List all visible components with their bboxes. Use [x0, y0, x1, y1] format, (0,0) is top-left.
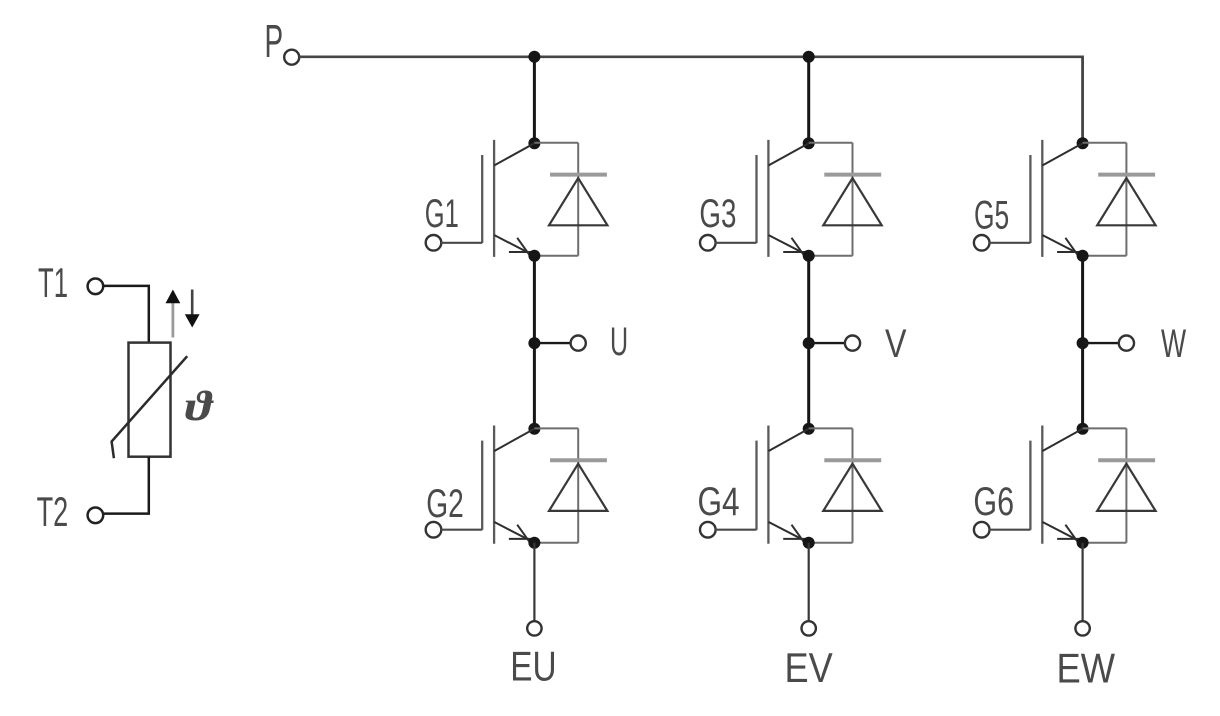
- wire: G4 lead to gate: [715, 529, 756, 531]
- node: Q5 emitter junction: [1077, 250, 1089, 262]
- wire: Q collector to D2 cathode: [534, 427, 578, 429]
- svg-text:ϑ: ϑ: [185, 384, 214, 430]
- diode D5: [1097, 143, 1155, 256]
- wire: G1 lead to gate: [441, 242, 482, 244]
- diode D3: [823, 143, 881, 256]
- wire: Q collector to D1 cathode: [534, 142, 578, 144]
- gate terminal G5: [974, 235, 990, 251]
- wire: P rail down to Q1 collector: [533, 57, 536, 143]
- wire: D3 anode to Q emitter: [809, 255, 853, 257]
- terminal U: [571, 336, 586, 351]
- wire: Q collector to D3 cathode: [809, 142, 853, 144]
- wire: Q4 emitter to terminal EV: [808, 543, 810, 622]
- svg-text:G1: G1: [425, 192, 459, 236]
- wire: Q collector to D6 cathode: [1083, 427, 1127, 429]
- gate terminal G1: [426, 235, 442, 251]
- svg-text:EW: EW: [1057, 645, 1116, 692]
- thermistor diagonal stroke: [112, 356, 188, 458]
- wire: Q3 emitter to node V: [807, 256, 810, 343]
- terminal T1: [88, 279, 104, 295]
- IGBT Q1: [482, 140, 534, 257]
- wire: D1 anode to Q emitter: [534, 255, 578, 257]
- wire: D6 anode to Q emitter: [1083, 542, 1127, 544]
- IGBT Q3: [757, 140, 809, 257]
- terminal P: [284, 50, 299, 65]
- svg-text:G5: G5: [974, 194, 1009, 238]
- wire: P rail from terminal P to W leg, corner down to Q5 collector: [299, 57, 1083, 143]
- terminal EW: [1075, 621, 1089, 635]
- svg-text:EV: EV: [785, 644, 833, 691]
- wire: G5 lead to gate: [989, 242, 1030, 244]
- junction: P rail / U leg: [528, 51, 540, 63]
- node: Q2 collector junction: [528, 423, 540, 435]
- terminal V: [845, 336, 860, 351]
- node U junction: [528, 337, 540, 349]
- wire: Q collector to D5 cathode: [1083, 142, 1127, 144]
- svg-text:G6: G6: [973, 480, 1014, 524]
- wire: Q2 emitter to terminal EU: [533, 543, 535, 622]
- wire: Q collector to D4 cathode: [809, 427, 853, 429]
- gate terminal G2: [426, 522, 442, 538]
- svg-text:EU: EU: [510, 643, 556, 690]
- wire: G3 lead to gate: [715, 242, 756, 244]
- IGBT Q2: [482, 426, 534, 544]
- terminal EU: [527, 621, 541, 635]
- terminal EV: [802, 621, 816, 635]
- wire: Q5 emitter to node W: [1081, 256, 1084, 343]
- terminal W: [1119, 336, 1134, 351]
- node W junction: [1077, 337, 1089, 349]
- gate terminal G4: [700, 522, 716, 538]
- terminal T2: [88, 508, 104, 524]
- diode D4: [823, 428, 881, 542]
- svg-text:G3: G3: [699, 192, 736, 236]
- svg-text:T2: T2: [37, 488, 69, 535]
- wire: node U to Q2 collector: [533, 343, 536, 429]
- current direction arrow up: [166, 290, 181, 338]
- IGBT Q5: [1030, 140, 1082, 257]
- junction: P rail / V leg: [803, 51, 815, 63]
- wire: Q6 emitter to terminal EW: [1081, 543, 1083, 622]
- wire: T1 to thermistor body: [103, 286, 149, 343]
- wire: D5 anode to Q emitter: [1083, 255, 1127, 257]
- svg-text:G4: G4: [698, 480, 740, 524]
- wire: node V to Q4 collector: [807, 343, 810, 429]
- node: Q1 collector junction: [528, 137, 540, 149]
- gate terminal G3: [700, 235, 716, 251]
- wire: G2 lead to gate: [441, 529, 482, 531]
- diode D2: [549, 428, 607, 542]
- wire: thermistor body to T2: [103, 457, 149, 514]
- node: Q2 emitter junction: [528, 537, 540, 549]
- node: Q6 collector junction: [1077, 423, 1089, 435]
- wire: Q1 emitter to node U: [533, 256, 536, 343]
- node: Q4 collector junction: [803, 423, 815, 435]
- diode D1: [549, 143, 607, 256]
- current direction arrow down: [185, 290, 200, 328]
- gate terminal G6: [974, 522, 990, 538]
- svg-text:V: V: [885, 322, 907, 366]
- node: Q5 collector junction: [1077, 137, 1089, 149]
- wire: node W to Q6 collector: [1081, 343, 1084, 429]
- wire: node U to terminal U: [534, 342, 571, 344]
- wire: G6 lead to gate: [989, 529, 1030, 531]
- wire: node W to terminal W: [1083, 342, 1120, 344]
- node: Q1 emitter junction: [528, 250, 540, 262]
- IGBT Q4: [757, 426, 809, 544]
- svg-text:U: U: [610, 320, 628, 364]
- svg-text:W: W: [1161, 322, 1186, 366]
- IGBT Q6: [1030, 426, 1082, 544]
- node: Q3 collector junction: [803, 137, 815, 149]
- wire: D4 anode to Q emitter: [809, 542, 853, 544]
- node: Q6 emitter junction: [1077, 537, 1089, 549]
- thermistor R1 body: [129, 343, 171, 457]
- wire: P rail down to Q3 collector: [807, 57, 810, 143]
- wire: rail corner down to Q5 collector: [1081, 57, 1084, 143]
- diode D6: [1097, 428, 1155, 542]
- node V junction: [803, 337, 815, 349]
- svg-text:P: P: [265, 15, 284, 67]
- node: Q4 emitter junction: [803, 537, 815, 549]
- wire: node V to terminal V: [809, 342, 846, 344]
- svg-text:T1: T1: [38, 259, 68, 306]
- wire: D2 anode to Q emitter: [534, 542, 578, 544]
- svg-text:G2: G2: [426, 482, 464, 526]
- node: Q3 emitter junction: [803, 250, 815, 262]
